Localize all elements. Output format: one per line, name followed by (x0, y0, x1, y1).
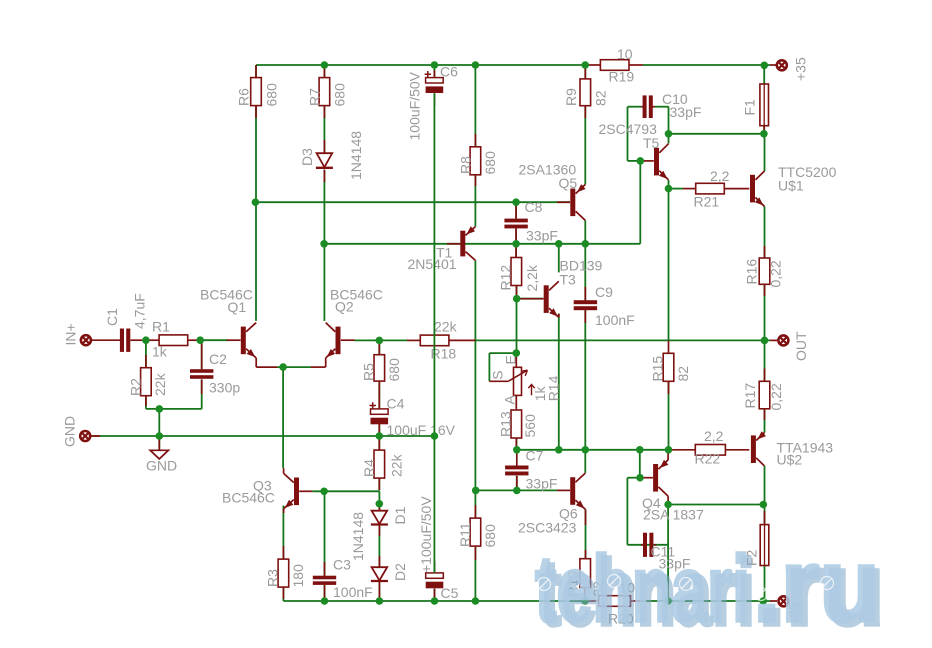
fuse F2 (744, 511, 769, 566)
wire +35 rail right of R19 (643, 64, 770, 66)
wire node R13-T3.e-Q6.c-R15 horizontal (517, 449, 669, 451)
ground symbol GND (146, 436, 177, 474)
svg-text:Q2: Q2 (335, 299, 354, 315)
transistor Q2 BC546C (311, 287, 383, 368)
svg-text:Q1: Q1 (228, 299, 247, 315)
svg-text:C1: C1 (104, 308, 120, 326)
svg-text:1N4148: 1N4148 (348, 131, 364, 180)
svg-text:tehnari: tehnari (535, 536, 750, 641)
svg-text:330p: 330p (209, 380, 240, 396)
wire node R2-C2 bottom (146, 408, 202, 410)
svg-text:680: 680 (482, 151, 498, 175)
wire node Q3.b-C3-R4 (312, 490, 379, 492)
transistor T5 2SC4793 (599, 121, 669, 180)
svg-text:R2: R2 (128, 378, 144, 396)
wire -35 rail right of R20 (644, 600, 770, 602)
wire D1-D2 vertical (378, 504, 380, 511)
svg-text:GND: GND (146, 458, 177, 474)
svg-text:Q5: Q5 (559, 175, 578, 191)
node R4-D1 (376, 500, 384, 508)
svg-text:100nF: 100nF (333, 584, 373, 600)
wire C8-R12-R14-R13-C7 vertical (515, 202, 517, 218)
svg-text:R9: R9 (563, 88, 579, 106)
transistor T1 2N5401 (408, 226, 476, 272)
trimmer R14 1k (489, 353, 561, 409)
wire Q3 emitter/R3 segment (282, 506, 284, 512)
node Q2.b-R18-R5 (376, 337, 384, 345)
transistor Q1 BC546C (200, 287, 277, 368)
watermark tehnari.ru (535, 528, 885, 648)
svg-text:33pF: 33pF (526, 228, 558, 244)
diode D3 1N4148 (299, 131, 364, 182)
node Q1.e-Q2.e tail (279, 363, 287, 371)
svg-text:2N5401: 2N5401 (408, 256, 457, 272)
wire -35 rail left of R20 (283, 600, 585, 602)
capacitor C4 (370, 392, 456, 438)
svg-text:R1: R1 (152, 319, 170, 335)
node R6-Q1.c (252, 198, 260, 206)
wire T1.c-Q6.b-R11 vertical (474, 260, 476, 490)
svg-text:680: 680 (482, 524, 498, 548)
node R14 E-S (513, 349, 521, 357)
svg-text:D3: D3 (299, 148, 315, 166)
svg-text:D2: D2 (392, 563, 408, 581)
wire C6-GND-C5 vertical rail (433, 93, 435, 572)
wire R7-D3-Q2.c vertical (323, 65, 325, 78)
resistor R5 (361, 342, 403, 393)
resistor R19 (585, 46, 643, 85)
wire OUT net horizontal (355, 339, 408, 341)
capacitor C9 (574, 284, 635, 328)
wire Q1 base wire (200, 339, 228, 341)
node C4-R4-GND (376, 432, 384, 440)
transistor T3 BD139 (517, 258, 603, 318)
wire C2 vertical (201, 340, 203, 369)
resistor R22 (669, 428, 750, 467)
svg-text:22k: 22k (389, 453, 405, 477)
node C1-R1-R2 (142, 336, 150, 344)
svg-text:33pF: 33pF (526, 476, 558, 492)
node Q3.b-C3 (320, 488, 328, 496)
transistor Q5 2SA1360 (519, 162, 586, 221)
wire C3 vertical (324, 491, 326, 576)
svg-text:U$1: U$1 (778, 178, 804, 194)
capacitor C8 (504, 199, 558, 244)
svg-text:22k: 22k (434, 319, 458, 335)
node R1-Q1.b-C2 (196, 336, 204, 344)
node C10-T5.c (665, 130, 673, 138)
node T3.e lower (555, 446, 563, 454)
wire +35 rail left of R19 (256, 64, 585, 66)
wire C1-R2 vertical (145, 340, 147, 368)
resistor R3 (265, 546, 307, 599)
node C9-Q6.c (582, 446, 590, 454)
svg-text:+100uF/50V: +100uF/50V (418, 496, 434, 573)
svg-text:C5: C5 (441, 585, 459, 601)
resistor R10 (565, 550, 607, 600)
resistor R4 (361, 436, 405, 490)
svg-text:R6: R6 (236, 88, 252, 106)
node +35/R9-R19 (581, 61, 589, 69)
svg-text:R14: R14 (546, 375, 562, 401)
svg-text:2,2: 2,2 (704, 428, 724, 444)
svg-text:0,22: 0,22 (768, 260, 784, 287)
node C5/-35 (431, 597, 439, 605)
wire C10 to F1 horizontal (669, 133, 764, 135)
wire C11 link (627, 544, 668, 546)
svg-text:D1: D1 (392, 506, 408, 524)
wire GND rail (92, 435, 434, 437)
resistor R6 (236, 65, 280, 118)
wire T5 base wire (628, 160, 641, 162)
node OUT-R16-R17 (761, 337, 769, 345)
svg-text:R19: R19 (609, 69, 635, 85)
wire C11 loop left vertical (626, 478, 628, 545)
svg-text:R15: R15 (650, 356, 666, 382)
terminal +35 (770, 57, 809, 81)
svg-text:4,7uF: 4,7uF (132, 293, 148, 329)
wire C10 loop top (628, 106, 642, 108)
svg-text:100uF/50V: 100uF/50V (407, 71, 423, 140)
svg-text:0,22: 0,22 (768, 383, 784, 410)
svg-text:C7: C7 (526, 448, 544, 464)
node R2-C2-GND (156, 405, 164, 413)
node U$2.c-F2 (760, 501, 768, 509)
node T5.e-R21 (665, 185, 673, 193)
svg-text:2SA 1837: 2SA 1837 (643, 507, 704, 523)
node R10-R20 (581, 597, 589, 605)
svg-text:R11: R11 (457, 522, 473, 547)
svg-text:560: 560 (522, 414, 538, 438)
wire node D3-T1.b-C8-Q5.c horizontal (324, 243, 640, 245)
capacitor C6 (407, 64, 459, 141)
svg-text:R13: R13 (498, 411, 514, 437)
node R11/-35 (472, 597, 480, 605)
node C7-Q6.b (513, 487, 521, 495)
svg-text:C2: C2 (209, 351, 227, 367)
svg-text:IN+: IN+ (63, 323, 79, 345)
svg-text:R5: R5 (361, 363, 377, 381)
node +35/R8 (472, 61, 480, 69)
svg-text:10: 10 (617, 46, 633, 62)
wire R9-Q5-C9-Q6 vertical (584, 65, 586, 79)
wire R5-C4-R4 vertical (378, 340, 380, 354)
resistor R21 (669, 168, 750, 210)
wire Q1-Q2 emitter bridge (277, 366, 311, 368)
svg-text:BC546C: BC546C (222, 490, 275, 506)
node R13-C7 (513, 446, 521, 454)
node C3/-35 (321, 597, 329, 605)
wire node R12-T3.b (517, 298, 544, 300)
svg-text:680: 680 (386, 358, 402, 382)
transistor Q6 2SC3423 (518, 473, 586, 535)
capacitor C2 (190, 341, 240, 396)
resistor R13 (498, 409, 539, 450)
capacitor C5 (418, 496, 459, 601)
resistor R8 (458, 134, 499, 186)
wire Q4 base drop vertical (639, 450, 641, 478)
svg-text:82: 82 (675, 366, 691, 382)
svg-text:2,2: 2,2 (710, 168, 730, 184)
svg-text:680: 680 (264, 83, 280, 107)
transistor U$2 TTA1943 (751, 431, 833, 467)
wire node Q4 base (627, 477, 640, 479)
node +35/C6 (431, 61, 439, 69)
node T5 base (637, 157, 645, 165)
transistor Q3 BC546C (222, 468, 312, 513)
terminal IN+ (63, 323, 121, 345)
node T3.c (555, 240, 563, 248)
svg-text:GND: GND (62, 416, 78, 447)
svg-text:R22: R22 (695, 451, 721, 467)
wire Q1-Q2 tail to Q3 vertical (282, 367, 284, 468)
resistor R18 (407, 319, 475, 362)
svg-text:.ru: .ru (753, 528, 880, 644)
diode D2 1N4148 (371, 556, 408, 599)
resistor R17 (742, 369, 784, 421)
node R15-R22-Q4.e (665, 446, 673, 454)
wire T3 emitter vertical (558, 244, 560, 273)
transistor Q4 2SA1837 (641, 450, 704, 523)
svg-text:R4: R4 (361, 459, 377, 477)
capacitor C3 (313, 557, 373, 601)
svg-text:180: 180 (290, 564, 306, 588)
resistor R9 (563, 65, 609, 118)
transistor U$1 TTC5200 (750, 164, 837, 207)
svg-text:R16: R16 (744, 259, 760, 285)
wire T5 base drop vertical (639, 161, 641, 244)
wire R14 wiper loop (489, 352, 516, 354)
svg-text:S: S (489, 370, 505, 379)
wire T5.e-R15-driver vertical (668, 107, 670, 144)
node Q4.c-C11 (664, 501, 672, 509)
fuse F1 (742, 84, 769, 134)
svg-text:C6: C6 (440, 64, 458, 80)
svg-text:100uF 16V: 100uF 16V (387, 422, 456, 438)
svg-text:C3: C3 (333, 557, 351, 573)
resistor R11 (457, 505, 498, 560)
node +35/F1 (761, 62, 769, 70)
resistor R12 (498, 244, 541, 299)
svg-text:T3: T3 (560, 271, 577, 287)
resistor R20 (585, 580, 644, 627)
node F2/-35 (759, 597, 767, 605)
capacitor C11 (641, 533, 690, 572)
svg-text:R12: R12 (498, 265, 514, 291)
svg-text:C9: C9 (595, 284, 613, 300)
svg-text:22k: 22k (152, 372, 168, 396)
terminal OUT (770, 331, 809, 361)
svg-text:82: 82 (593, 90, 609, 106)
node R12-T3.b (513, 295, 521, 303)
svg-text:33pF: 33pF (670, 104, 702, 120)
svg-text:OUT: OUT (793, 331, 809, 361)
svg-text:1k: 1k (152, 344, 168, 360)
wire C6 rail top stub (433, 65, 435, 77)
wire C10 loop left vertical (627, 107, 629, 161)
wire F1-U$1-R16-R17-U$2-F2 vertical (763, 65, 765, 84)
resistor R16 (744, 246, 784, 296)
svg-text:R7: R7 (307, 88, 323, 106)
resistor R2 (128, 355, 169, 406)
node D3-T1.b-Q2.c (320, 240, 328, 248)
svg-text:C4: C4 (387, 396, 405, 412)
node GND-C6/C5 rail (431, 432, 439, 440)
node Q5.c-C9 (582, 240, 590, 248)
svg-text:R8: R8 (458, 156, 474, 174)
wire R8-T1.e vertical (474, 65, 476, 147)
wire R6 branch vertical (255, 65, 257, 78)
terminal GND (62, 416, 101, 447)
terminal -35 (770, 596, 802, 622)
diode D1 1N4148 (350, 504, 408, 561)
wire node C7-Q6.b (476, 489, 557, 491)
svg-text:100nF: 100nF (595, 312, 635, 328)
resistor R1 (146, 319, 200, 360)
node T1.c-Q6.b (472, 487, 480, 495)
svg-text:R17: R17 (742, 383, 758, 409)
wire node Q1.c-Q5.b horizontal (255, 201, 570, 203)
svg-text:T5: T5 (643, 135, 660, 151)
svg-text:2SC3423: 2SC3423 (518, 520, 577, 536)
svg-text:U$2: U$2 (777, 452, 803, 468)
svg-text:680: 680 (332, 83, 348, 107)
svg-text:+35: +35 (793, 57, 809, 81)
svg-text:R21: R21 (694, 194, 720, 210)
capacitor C7 (505, 448, 557, 492)
svg-text:2,2k: 2,2k (524, 264, 540, 291)
resistor R15 (650, 340, 692, 394)
resistor R7 (307, 65, 348, 118)
node D2/-35 (376, 597, 384, 605)
svg-text:F1: F1 (742, 99, 758, 116)
svg-text:C8: C8 (525, 199, 543, 215)
node Q4.b drop (636, 446, 644, 454)
wire node Q4.c-U$2.c-F2 (668, 504, 763, 506)
wire GND stub vertical (158, 436, 160, 450)
node GND stub (156, 432, 164, 440)
node Q4 base (636, 474, 644, 482)
capacitor C1 (104, 293, 148, 352)
node C8 top (512, 198, 520, 206)
wire Q4.c vertical to -35 rail (667, 459, 669, 462)
node Q4.c/-35 (664, 597, 672, 605)
node C8-R12 (512, 240, 520, 248)
capacitor C10 (641, 91, 701, 120)
node +35/R7 (321, 61, 329, 69)
wire C5 bottom stub (434, 589, 436, 601)
svg-text:R3: R3 (265, 569, 281, 587)
svg-text:A: A (502, 395, 518, 405)
node F1 bottom (760, 130, 768, 138)
svg-text:1N4148: 1N4148 (350, 512, 366, 561)
